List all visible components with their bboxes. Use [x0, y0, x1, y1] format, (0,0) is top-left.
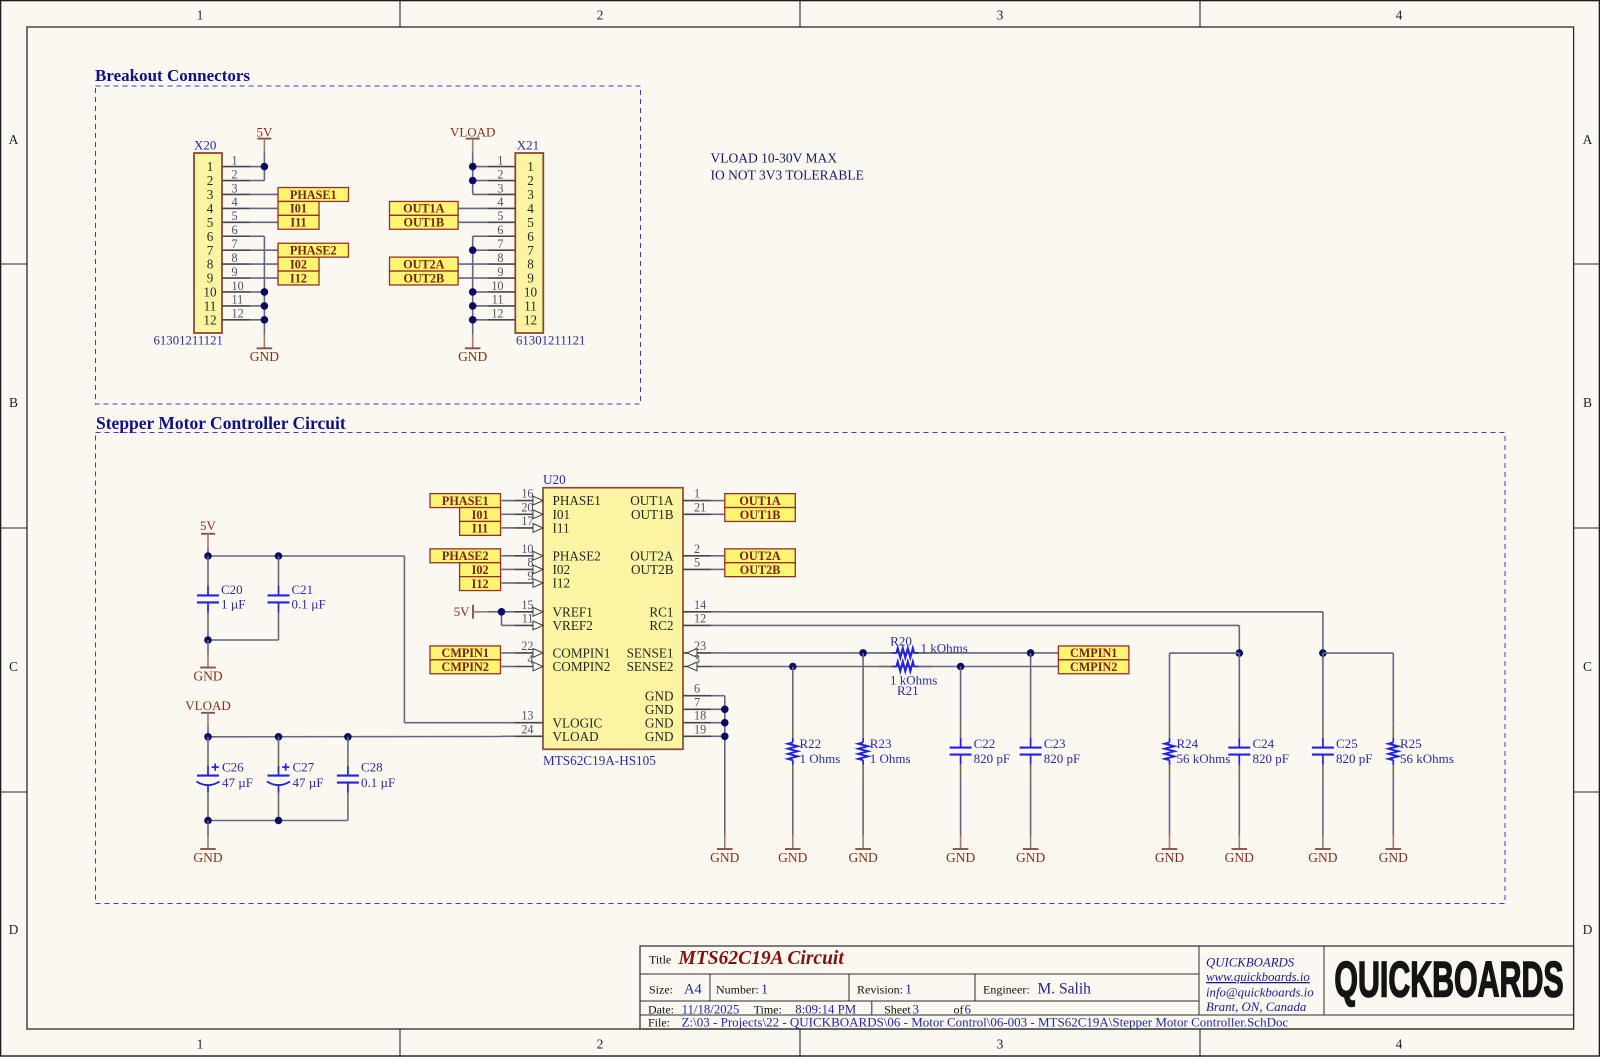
wire X20 pin8 to I02 [250, 263, 278, 265]
junction VLOAD at C26 [204, 733, 212, 741]
svg-text:6: 6 [527, 229, 534, 244]
svg-text:PHASE1: PHASE1 [290, 188, 337, 202]
svg-text:6: 6 [232, 223, 238, 237]
junction C27 bottom [275, 817, 283, 825]
svg-text:56 kOhms: 56 kOhms [1400, 751, 1454, 766]
svg-text:6: 6 [497, 223, 503, 237]
ground GND (C22) [960, 835, 962, 849]
net label OUT1A (X21) [390, 201, 459, 215]
U20 pin 23 SENSE1 (right) [683, 652, 711, 654]
ground GND (R23) [862, 835, 864, 849]
svg-text:5: 5 [497, 209, 503, 223]
net label CMPIN1 (U20) [430, 646, 501, 660]
ground GND (VLOAD rail) [207, 835, 209, 849]
svg-text:1 Ohms: 1 Ohms [800, 751, 841, 766]
wire OUT1A to X21 pin4 [458, 207, 487, 209]
wire R25 to GND [1392, 778, 1394, 835]
svg-text:1 µF: 1 µF [221, 597, 245, 612]
U20 pin 11 VREF2 (left) [502, 624, 516, 626]
svg-text:QUICKBOARDS: QUICKBOARDS [1334, 952, 1563, 1008]
svg-text:10: 10 [203, 285, 217, 300]
wire X20 pin4 to I01 [250, 207, 278, 209]
svg-text:Stepper Motor Controller Circu: Stepper Motor Controller Circuit [96, 413, 346, 433]
svg-text:2: 2 [694, 542, 700, 556]
svg-text:B: B [9, 395, 18, 410]
svg-text:2: 2 [597, 7, 604, 22]
net label I12 (U20) [460, 577, 501, 591]
resistor R25 [1392, 724, 1394, 738]
svg-text:47 µF: 47 µF [222, 775, 253, 790]
U20 pin 9 I12 (left) [502, 582, 516, 584]
svg-text:I01: I01 [290, 202, 307, 216]
svg-text:COMPIN2: COMPIN2 [553, 659, 611, 674]
svg-text:11: 11 [492, 293, 504, 307]
svg-text:4: 4 [1396, 7, 1403, 22]
svg-text:GND: GND [946, 850, 975, 865]
junction GND pin19 [721, 733, 729, 741]
svg-text:C27: C27 [293, 760, 315, 775]
net label CMPIN1 (right) [1058, 646, 1129, 660]
svg-text:3: 3 [997, 7, 1004, 22]
svg-text:Z:\03 - Projects\22 - QUICKBOA: Z:\03 - Projects\22 - QUICKBOARDS\06 - M… [682, 1014, 1289, 1029]
wire RC2 node to R24 [1170, 652, 1240, 654]
ground GND (C24) [1238, 835, 1240, 849]
svg-text:2: 2 [232, 167, 238, 181]
svg-text:820 pF: 820 pF [974, 751, 1010, 766]
wire X20 pin5 to I11 [250, 221, 278, 223]
svg-text:24: 24 [521, 722, 533, 736]
svg-text:2: 2 [497, 167, 503, 181]
svg-text:I11: I11 [290, 216, 306, 230]
svg-text:GND: GND [1155, 850, 1184, 865]
wire C23 leads [1030, 653, 1032, 724]
X20 pin 7 stub [222, 249, 250, 251]
svg-text:12: 12 [491, 307, 503, 321]
svg-text:C21: C21 [292, 582, 314, 597]
svg-text:3: 3 [497, 181, 503, 195]
U20 pin 14 RC1 (right) [683, 611, 711, 613]
svg-text:GND: GND [1225, 850, 1254, 865]
junction VLOAD at C28 [344, 733, 352, 741]
svg-text:14: 14 [694, 598, 706, 612]
wire GND bus X21 [472, 236, 474, 334]
svg-text:7: 7 [497, 237, 503, 251]
wire 5V rail [207, 548, 209, 557]
svg-text:1: 1 [527, 159, 534, 174]
wire C27 leads [278, 737, 280, 753]
svg-text:Date:: Date: [648, 1002, 674, 1016]
svg-text:GND: GND [193, 850, 222, 865]
svg-text:OUT1B: OUT1B [740, 508, 781, 522]
svg-text:GND: GND [193, 668, 222, 683]
svg-text:8: 8 [497, 251, 503, 265]
svg-text:PHASE2: PHASE2 [442, 549, 489, 563]
svg-text:6: 6 [694, 682, 700, 696]
svg-text:13: 13 [521, 709, 533, 723]
svg-text:A: A [9, 132, 19, 147]
wire RC1 node to R25 [1323, 652, 1393, 654]
junction X21 pin12 [469, 316, 477, 324]
capacitor C20 [207, 572, 209, 586]
svg-text:2: 2 [527, 173, 534, 188]
svg-text:Breakout Connectors: Breakout Connectors [95, 66, 250, 85]
net label PHASE1 (U20) [430, 494, 501, 508]
U20 pin 7 GND (right) [683, 708, 711, 710]
junction X20 pin12 [261, 316, 269, 324]
svg-text:19: 19 [694, 722, 706, 736]
X21 pin 4 stub [487, 207, 515, 209]
svg-text:OUT2B: OUT2B [631, 562, 674, 577]
X20 pin 2 stub [222, 180, 250, 182]
X20 pin 10 stub [222, 291, 250, 293]
wire X20 pin7 to PHASE2 [250, 249, 278, 251]
wire VLOAD rail [207, 726, 209, 737]
junction GND pin7 [721, 706, 729, 714]
svg-text:GND: GND [458, 349, 487, 364]
svg-text:OUT1A: OUT1A [403, 202, 445, 216]
U20 pin 17 I11 (left) [502, 527, 516, 529]
svg-text:D: D [1583, 922, 1593, 937]
svg-text:VLOAD 10-30V MAX: VLOAD 10-30V MAX [711, 150, 838, 165]
X21 pin 1 stub [487, 166, 515, 168]
svg-text:I12: I12 [472, 577, 489, 591]
svg-text:File:: File: [648, 1015, 670, 1029]
net label I01 (U20) [460, 508, 501, 522]
net label PHASE2 (X20) [278, 243, 349, 257]
svg-text:SENSE2: SENSE2 [627, 659, 674, 674]
svg-text:C23: C23 [1044, 736, 1066, 751]
svg-text:MTS62C19A-HS105: MTS62C19A-HS105 [543, 753, 656, 768]
svg-text:I11: I11 [472, 522, 488, 536]
svg-text:61301211121: 61301211121 [516, 334, 585, 348]
svg-text:1: 1 [497, 153, 503, 167]
svg-text:GND: GND [1379, 850, 1408, 865]
wire X21 pin11 [473, 305, 488, 307]
net label OUT2B (X21) [390, 271, 459, 285]
junction 5V rail at C21 [275, 552, 283, 560]
svg-text:0.1 µF: 0.1 µF [361, 775, 395, 790]
svg-text:1: 1 [905, 982, 912, 997]
svg-text:GND: GND [848, 850, 877, 865]
wire R23 top [862, 667, 864, 725]
U20 pin 19 GND (right) [683, 735, 711, 737]
junction SENSE1 at C23 [1027, 649, 1035, 657]
X21 pin 6 stub [487, 235, 515, 237]
svg-text:I12: I12 [553, 576, 571, 591]
net label CMPIN2 (U20) [430, 660, 501, 674]
junction X21 pin1 [469, 163, 477, 171]
svg-text:IO NOT 3V3 TOLERABLE: IO NOT 3V3 TOLERABLE [711, 168, 864, 183]
svg-text:GND: GND [710, 850, 739, 865]
junction SENSE2 at R22 [789, 663, 797, 671]
resistor R21 [878, 666, 892, 668]
U20 pin 20 I01 (left) [502, 513, 516, 515]
X20 pin 1 stub [222, 166, 250, 168]
svg-text:22: 22 [521, 639, 533, 653]
svg-text:3: 3 [207, 187, 214, 202]
U20 pin 1 OUT1A (right) [683, 500, 711, 502]
svg-text:47 µF: 47 µF [293, 775, 324, 790]
junction X20 pin1 [261, 163, 269, 171]
svg-text:C24: C24 [1253, 736, 1275, 751]
U20 pin 16 PHASE1 (left) [502, 500, 516, 502]
svg-text:I02: I02 [290, 257, 307, 271]
wire R22 to GND [792, 778, 794, 835]
svg-text:C20: C20 [221, 582, 243, 597]
svg-text:GND: GND [645, 729, 674, 744]
net label OUT1B (X21) [390, 215, 459, 229]
svg-text:5V: 5V [256, 124, 273, 139]
resistor R22 [792, 724, 794, 738]
net label OUT1A (U20) [725, 494, 796, 508]
U20 pin 10 PHASE2 (left) [502, 555, 516, 557]
junction X20 pin10 [261, 288, 269, 296]
svg-text:GND: GND [250, 349, 279, 364]
svg-text:1: 1 [207, 159, 214, 174]
net label I11 (U20) [460, 521, 501, 535]
svg-text:1 Ohms: 1 Ohms [870, 751, 911, 766]
svg-text:15: 15 [521, 598, 533, 612]
net label OUT1B (U20) [725, 508, 796, 522]
junction C26 bottom [204, 817, 212, 825]
X20 pin 8 stub [222, 263, 250, 265]
svg-text:I02: I02 [472, 563, 489, 577]
svg-text:I01: I01 [472, 508, 489, 522]
svg-text:11: 11 [232, 293, 244, 307]
junction X20 pin11 [261, 302, 269, 310]
svg-text:3: 3 [997, 1037, 1004, 1052]
X21 pin 3 stub [487, 193, 515, 195]
X20 pin 6 stub [222, 235, 250, 237]
svg-text:D: D [9, 922, 19, 937]
op-amp U20 MTS62C19A-HS105 body [543, 488, 683, 750]
X21 pin 5 stub [487, 221, 515, 223]
svg-text:10: 10 [232, 279, 244, 293]
title block frame [640, 946, 1574, 1029]
svg-text:I11: I11 [553, 521, 570, 536]
svg-text:C28: C28 [361, 760, 383, 775]
svg-text:11: 11 [522, 611, 534, 625]
svg-text:GND: GND [1016, 850, 1045, 865]
X20 pin 5 stub [222, 221, 250, 223]
X21 pin 7 stub [487, 249, 515, 251]
svg-text:4: 4 [1396, 1037, 1403, 1052]
svg-text:I12: I12 [290, 271, 307, 285]
U20 pin 18 GND (right) [683, 722, 711, 724]
svg-text:OUT2B: OUT2B [403, 271, 444, 285]
capacitor C23 [1030, 724, 1032, 738]
junction RC2 node [1236, 649, 1244, 657]
svg-text:7: 7 [694, 695, 700, 709]
svg-text:5V: 5V [454, 604, 471, 619]
capacitor C25 [1322, 724, 1324, 738]
svg-text:4: 4 [497, 195, 503, 209]
svg-text:12: 12 [694, 611, 706, 625]
junction X21 pin11 [469, 302, 477, 310]
svg-text:MTS62C19A Circuit: MTS62C19A Circuit [678, 948, 845, 969]
net label PHASE1 (X20) [278, 188, 349, 202]
svg-text:C22: C22 [974, 736, 996, 751]
U20 pin 24 VLOAD (left) [502, 735, 516, 737]
U20 pin 6 GND (right) [683, 695, 711, 697]
wire C26 leads [207, 737, 209, 753]
wire OUT2B to X21 pin9 [458, 277, 487, 279]
svg-text:8: 8 [527, 257, 534, 272]
net label I02 (U20) [460, 563, 501, 577]
svg-text:Size:: Size: [649, 982, 673, 996]
wire VLOAD to X21 pins 1-3 [472, 153, 474, 195]
X21 pin 12 stub [487, 319, 515, 321]
svg-text:R25: R25 [1400, 736, 1422, 751]
svg-text:www.quickboards.io: www.quickboards.io [1206, 970, 1310, 984]
svg-text:CMPIN1: CMPIN1 [1070, 646, 1117, 660]
svg-text:1: 1 [761, 982, 768, 997]
net label I02 (X20) [278, 257, 319, 271]
junction X21 pin2 [469, 177, 477, 185]
svg-text:R22: R22 [800, 736, 822, 751]
svg-text:VREF2: VREF2 [553, 618, 593, 633]
capacitor C26 [207, 752, 209, 766]
svg-text:11: 11 [524, 299, 537, 314]
U20 pin 4 COMPIN2 (left) [502, 666, 516, 668]
net label OUT2A (U20) [725, 549, 796, 563]
svg-text:U20: U20 [543, 472, 566, 487]
wire R23 to GND [862, 778, 864, 835]
X21 pin 8 stub [487, 263, 515, 265]
svg-text:C: C [9, 659, 18, 674]
wire C22 leads [960, 667, 962, 725]
svg-text:820 pF: 820 pF [1253, 751, 1289, 766]
ground GND (C23) [1030, 835, 1032, 849]
wire X20 pin9 to I12 [250, 277, 278, 279]
net label I01 (X20) [278, 201, 319, 215]
wire X20 pin12 [250, 319, 264, 321]
svg-text:10: 10 [491, 279, 503, 293]
svg-text:GND: GND [1308, 850, 1337, 865]
svg-text:820 pF: 820 pF [1044, 751, 1080, 766]
resistor R24 [1169, 724, 1171, 738]
svg-text:CMPIN2: CMPIN2 [1070, 660, 1117, 674]
wire SENSE1 [725, 652, 1059, 654]
X21 pin 9 stub [487, 277, 515, 279]
svg-text:9: 9 [232, 265, 238, 279]
capacitor C24 [1238, 724, 1240, 738]
junction 5V rail at C20 [204, 552, 212, 560]
U20 pin 3 SENSE2 (right) [683, 666, 711, 668]
junction SENSE2 at C22 [957, 663, 965, 671]
svg-text:PHASE2: PHASE2 [290, 244, 337, 258]
svg-text:5: 5 [694, 555, 700, 569]
X20 pin 3 stub [222, 193, 250, 195]
wire C26/C27/C28 bottom [208, 820, 348, 822]
junction GND pin18 [721, 719, 729, 727]
svg-text:12: 12 [232, 307, 244, 321]
wire OUT2A to X21 pin8 [458, 263, 487, 265]
svg-text:1 kOhms: 1 kOhms [921, 641, 968, 656]
svg-text:5: 5 [232, 209, 238, 223]
wire C20/C21 bottom [208, 639, 279, 641]
svg-text:56 kOhms: 56 kOhms [1177, 751, 1231, 766]
ground GND (R25) [1392, 835, 1394, 849]
svg-text:5: 5 [207, 215, 214, 230]
X20 pin 4 stub [222, 207, 250, 209]
wire R24 to GND [1169, 778, 1171, 835]
wire GND bus X20 [263, 236, 265, 334]
junction SENSE1 at R23 [859, 649, 867, 657]
ground GND (X21) [472, 334, 474, 348]
X21 pin 11 stub [487, 305, 515, 307]
net label OUT2B (U20) [725, 563, 796, 577]
wire X20 pin11 [250, 305, 264, 307]
svg-text:OUT2A: OUT2A [739, 549, 781, 563]
wire X21 pin12 [473, 319, 488, 321]
wire C28 leads [347, 737, 349, 753]
ground GND (C25) [1322, 835, 1324, 849]
connector X21 [515, 153, 543, 333]
svg-text:9: 9 [527, 271, 534, 286]
svg-text:Revision:: Revision: [857, 982, 903, 996]
svg-text:3: 3 [232, 181, 238, 195]
capacitor C21 [278, 572, 280, 586]
svg-text:7: 7 [527, 243, 534, 258]
X21 pin 10 stub [487, 291, 515, 293]
svg-text:820 pF: 820 pF [1336, 751, 1372, 766]
net label OUT2A (X21) [390, 257, 459, 271]
junction VREF1 [498, 608, 506, 616]
wire RC2 [725, 624, 1240, 626]
wire U20 GND bus [724, 696, 726, 835]
svg-text:M. Salih: M. Salih [1038, 980, 1092, 997]
capacitor C28 [347, 752, 349, 766]
X20 pin 11 stub [222, 305, 250, 307]
net label PHASE2 (U20) [430, 549, 501, 563]
wire C21 leads [278, 556, 280, 572]
junction X21 pin10 [469, 288, 477, 296]
svg-text:CMPIN1: CMPIN1 [442, 646, 489, 660]
wire to GND (5V rail) [207, 640, 209, 654]
wire OUT1B to X21 pin5 [458, 221, 487, 223]
wire C25 leads [1322, 653, 1324, 724]
svg-text:4: 4 [527, 201, 534, 216]
junction C20 bottom [204, 636, 212, 644]
X20 pin 12 stub [222, 319, 250, 321]
svg-text:2: 2 [597, 1037, 604, 1052]
junction RC1 node [1319, 649, 1327, 657]
wire to GND (VLOAD rail) [207, 821, 209, 836]
svg-text:1: 1 [694, 487, 700, 501]
resistor R23 [862, 724, 864, 738]
svg-text:12: 12 [524, 312, 537, 327]
svg-text:5V: 5V [200, 518, 217, 533]
svg-text:A: A [1583, 132, 1593, 147]
wire 5V to VREF1/VREF2 [488, 611, 502, 613]
svg-text:Brant, ON, Canada: Brant, ON, Canada [1206, 1000, 1306, 1014]
wire X20 pin6 to GND bus [250, 235, 264, 237]
U20 pin 15 VREF1 (left) [502, 611, 516, 613]
svg-text:R20: R20 [890, 633, 912, 648]
svg-text:1: 1 [197, 7, 204, 22]
wire C20 leads [207, 556, 209, 572]
svg-text:RC2: RC2 [649, 618, 673, 633]
svg-text:Engineer:: Engineer: [983, 983, 1030, 997]
capacitor C22 [960, 724, 962, 738]
section box Stepper Motor Controller Circuit [96, 433, 1506, 904]
svg-text:X20: X20 [194, 138, 216, 153]
svg-text:21: 21 [694, 500, 706, 514]
ground GND (5V rail) [207, 654, 209, 668]
svg-text:A4: A4 [684, 981, 702, 997]
svg-text:8: 8 [232, 251, 238, 265]
